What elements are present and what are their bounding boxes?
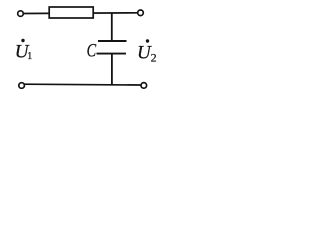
capacitor C top plate bbox=[98, 40, 127, 42]
svg-text:C: C bbox=[87, 39, 97, 60]
wire bottom horizontal bbox=[25, 83, 141, 86]
terminal top-left bbox=[18, 11, 24, 17]
wire capacitor bottom lead bbox=[111, 54, 113, 85]
terminal top-right bbox=[138, 10, 144, 16]
label U2 dot bbox=[146, 39, 149, 42]
svg-text:1: 1 bbox=[27, 51, 32, 62]
label U1 dot bbox=[21, 39, 24, 42]
capacitor C bottom plate bbox=[97, 53, 127, 55]
wire capacitor top lead bbox=[111, 13, 113, 41]
resistor R (series box) bbox=[49, 7, 93, 18]
wire top horizontal bbox=[24, 12, 138, 15]
svg-text:2: 2 bbox=[151, 51, 157, 65]
terminal bottom-left bbox=[19, 83, 25, 89]
terminal bottom-right bbox=[141, 83, 147, 89]
